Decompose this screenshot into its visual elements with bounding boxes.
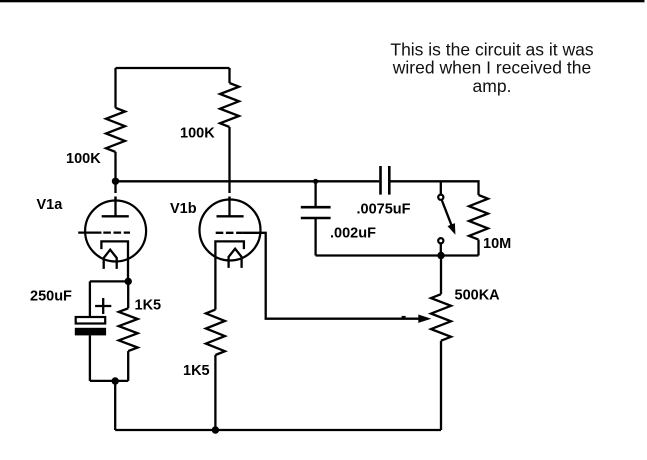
node: junction dot on ground rail: [212, 426, 219, 433]
V1b filament: [229, 249, 242, 268]
resistor R1 100K (left plate load): [106, 68, 125, 200]
svg-text:V1b: V1b: [170, 201, 197, 217]
node: junction dot at pot top: [437, 252, 444, 259]
tube triode V1b: [200, 197, 261, 268]
wire: combo to ground rail: [114, 381, 116, 430]
resistor R5 1K5 (V1b cathode): [206, 262, 225, 430]
svg-text:.002uF: .002uF: [330, 226, 376, 242]
V1b grid (dashes + stub to wiper wire): [216, 232, 243, 234]
svg-text:This is the circuit as it was: This is the circuit as it was: [390, 40, 593, 60]
V1a filament: [104, 250, 117, 269]
potentiometer VR1 500KA: [431, 256, 451, 431]
tube triode V1a: [78, 197, 146, 282]
capacitor C3 250uF electrolytic: [75, 281, 112, 381]
svg-text:1K5: 1K5: [183, 363, 210, 379]
V1a cathode bracket: [101, 241, 128, 281]
svg-text:.0075uF: .0075uF: [357, 202, 411, 218]
resistor R3 10M: [469, 195, 488, 256]
wire: cathode combo top: [90, 280, 128, 282]
V1a plate lead: [114, 197, 116, 217]
node: V1a cathode junction dot: [125, 278, 132, 285]
svg-text:V1a: V1a: [37, 197, 64, 213]
V1b plate lead: [228, 197, 230, 217]
node: junction dot at .002uF tap: [313, 179, 318, 184]
caption text: [390, 40, 593, 96]
resistor R4 1K5 (V1a cathode): [119, 281, 138, 381]
wire: lower sub-rail C2/switch/10M/pot: [316, 254, 479, 256]
plus sign: [95, 298, 111, 314]
capacitor C1 .0075uF (series coupling cap): [381, 166, 390, 195]
resistor R2 100K (right plate load): [220, 68, 239, 200]
svg-text:amp.: amp.: [473, 76, 512, 96]
svg-text:10M: 10M: [483, 236, 511, 252]
wire: from C1 to top-right corner down to 10M: [390, 181, 478, 195]
V1b plate bar: [217, 215, 244, 217]
wire: B+ top rail between 100K resistors: [116, 67, 230, 69]
node: junction dot below combo: [112, 377, 119, 384]
switch S1 (open SPST across C1): [438, 181, 455, 255]
node: junction dot at left 100K / V1a plate: [112, 178, 119, 185]
V1a grid (stub + dashes): [78, 231, 101, 233]
V1a plate bar: [102, 215, 129, 217]
svg-text:100K: 100K: [66, 151, 101, 167]
wire: bottom ground rail: [115, 429, 441, 431]
wire: wiper arrow from V1b grid to pot: [261, 233, 432, 323]
V1b cathode bracket: [215, 241, 244, 262]
wire: cathode combo bottom: [90, 380, 128, 382]
capacitor C2 .002uF: [301, 181, 331, 255]
svg-text:250uF: 250uF: [30, 289, 72, 305]
svg-text:500KA: 500KA: [455, 288, 501, 304]
top border line: [0, 0, 645, 2]
svg-text:1K5: 1K5: [135, 298, 162, 314]
svg-text:100K: 100K: [180, 126, 215, 142]
wire: horizontal plate rail y=181: [116, 180, 380, 182]
svg-text:wired when I received the: wired when I received the: [392, 58, 591, 78]
